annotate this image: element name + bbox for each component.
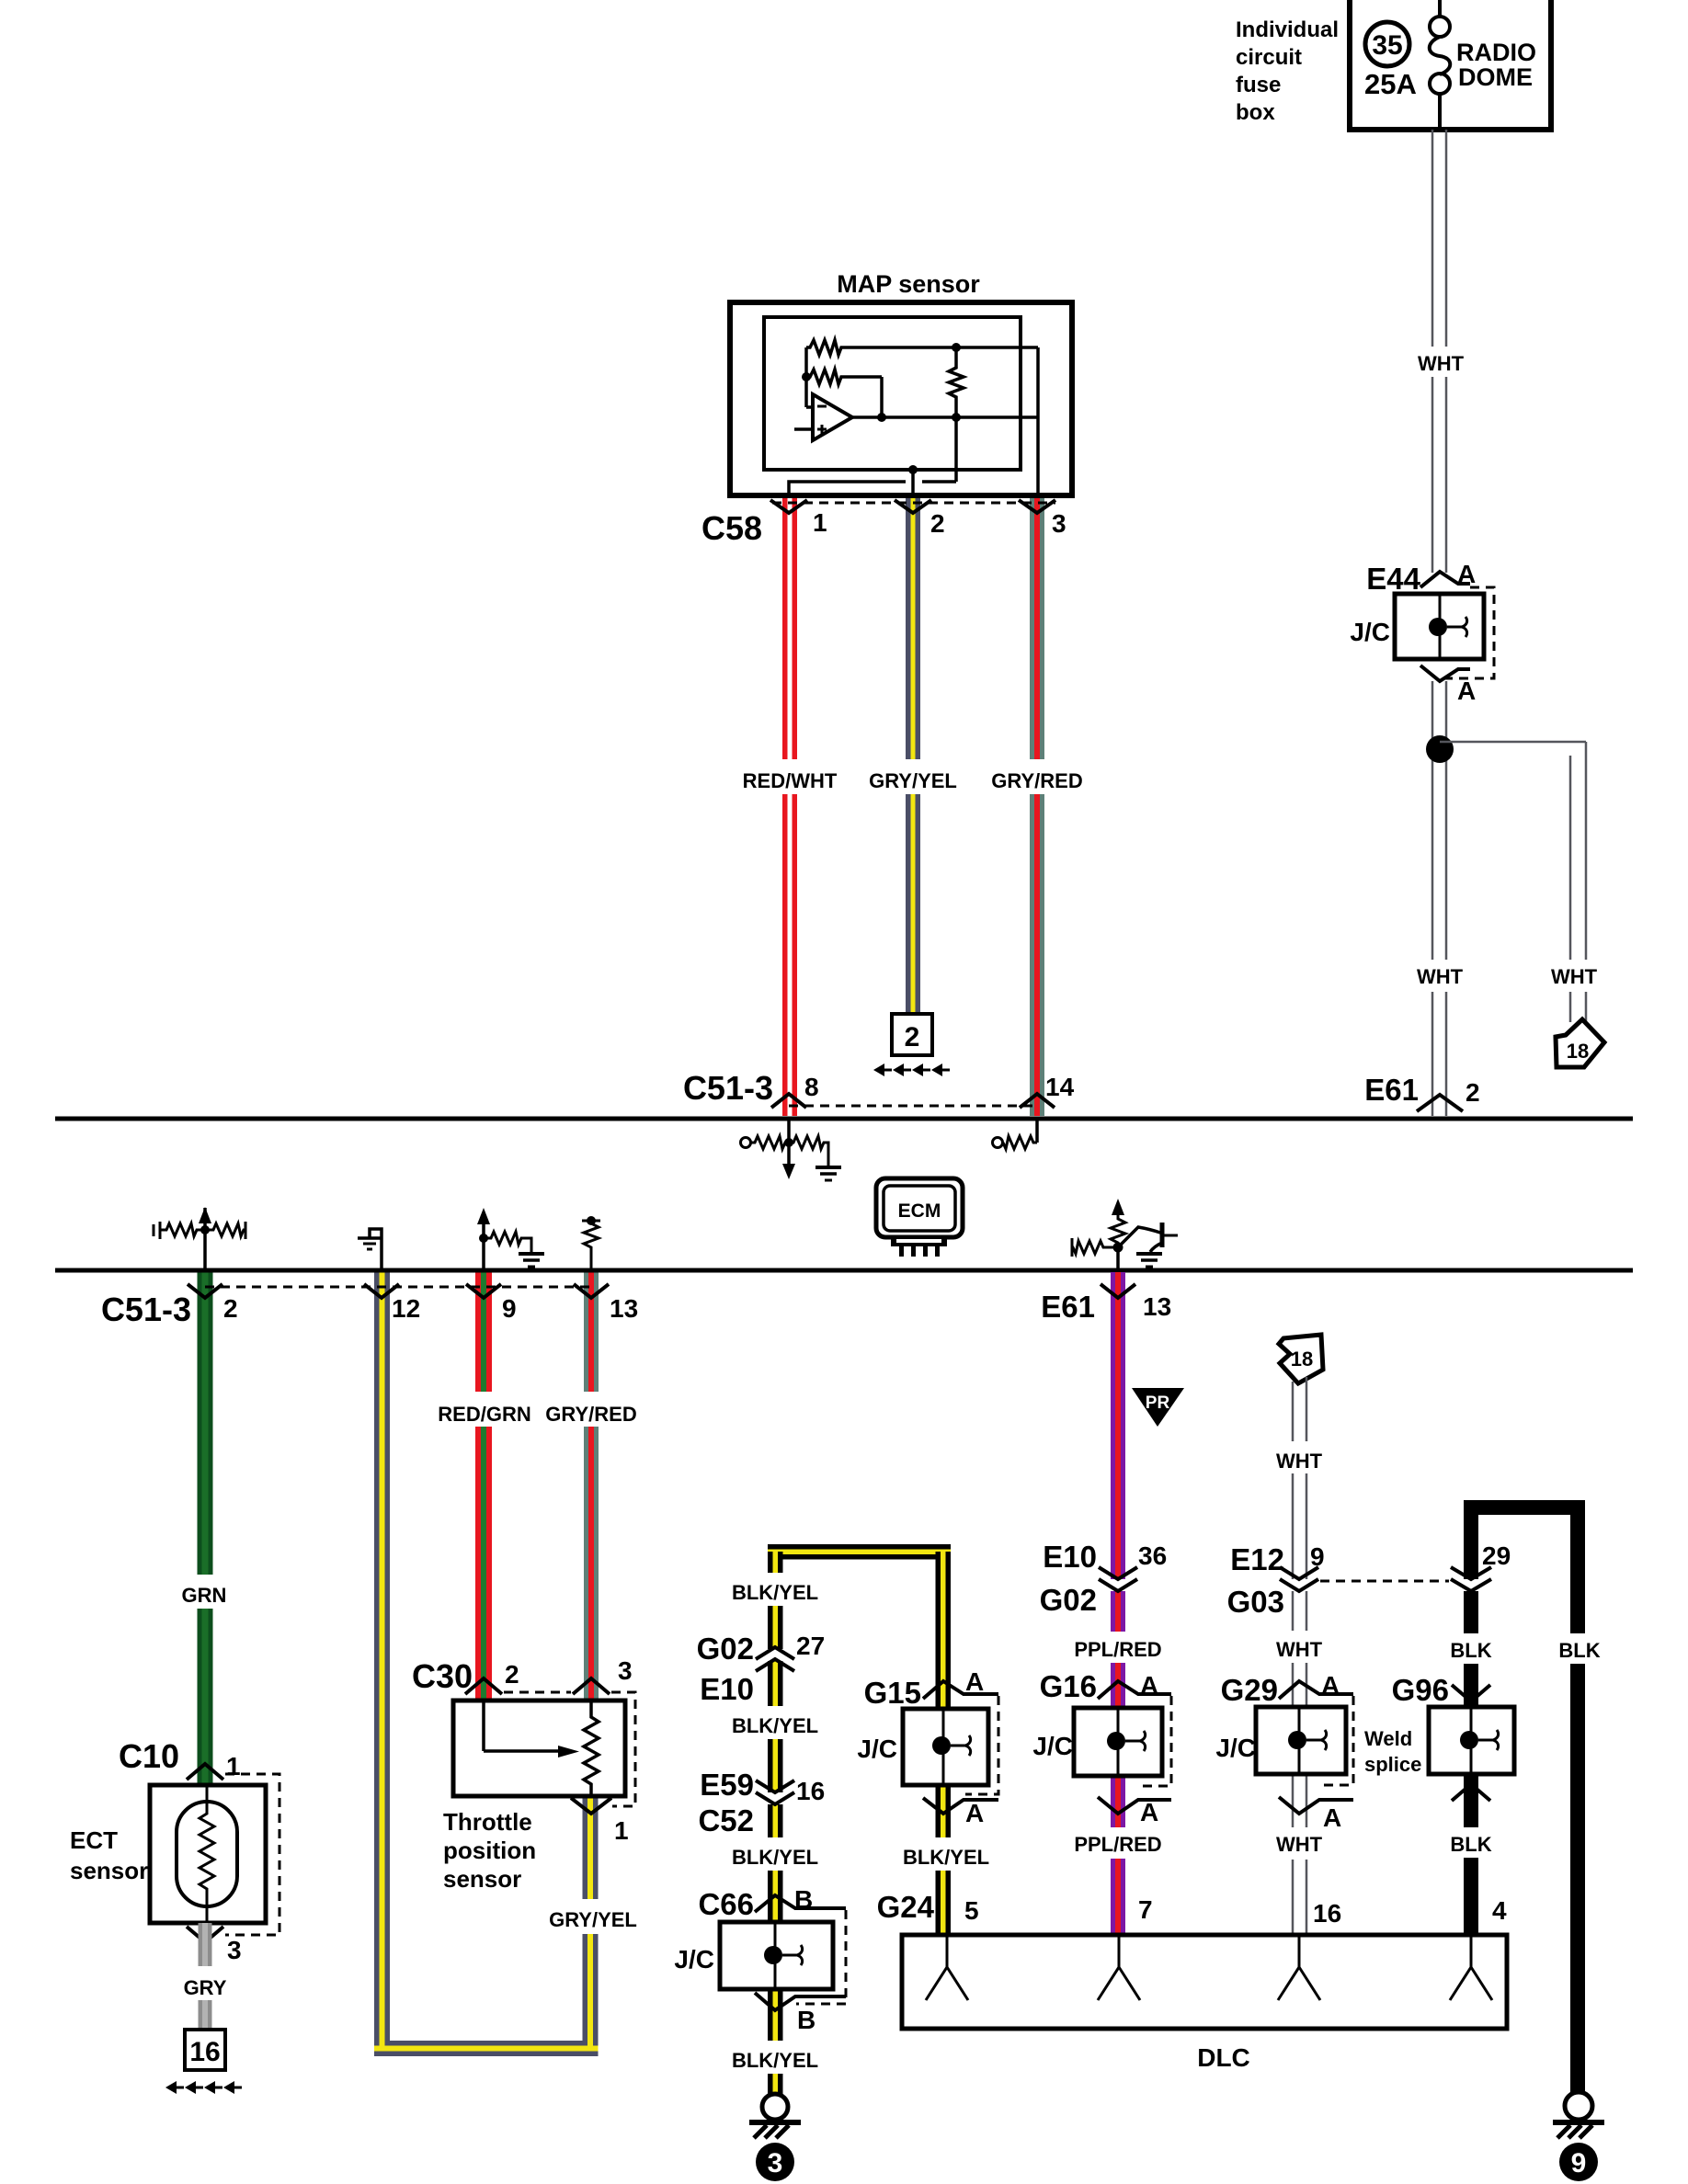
svg-text:WHT: WHT	[1551, 965, 1598, 988]
svg-text:3: 3	[227, 1936, 242, 1964]
svg-text:9: 9	[1310, 1542, 1325, 1571]
connector C30 pin 1	[571, 1798, 611, 1814]
wire RED/WHT C58-1	[782, 494, 797, 1116]
svg-text:box: box	[1236, 100, 1275, 125]
svg-text:2: 2	[223, 1294, 238, 1323]
svg-text:36: 36	[1138, 1541, 1167, 1570]
connector E10 pin 36 / G02	[1099, 1579, 1137, 1591]
svg-text:J/C: J/C	[674, 1945, 714, 1974]
svg-text:B: B	[797, 2006, 815, 2034]
DLC fork pin 7	[1098, 1935, 1119, 2000]
wire GRY/RED C51-3 pin 13	[584, 1272, 599, 1701]
ECM internal at pin 8	[787, 1120, 791, 1166]
svg-text:GRY: GRY	[184, 1976, 227, 1999]
PR triangle marker	[1132, 1388, 1184, 1427]
svg-text:E10: E10	[700, 1672, 754, 1706]
DLC box	[902, 1935, 1507, 2029]
svg-text:A: A	[1321, 1671, 1340, 1700]
connector E59 C52 pin 16	[756, 1792, 794, 1804]
svg-text:A: A	[1323, 1803, 1341, 1832]
ECT sensor dashed outline	[225, 1774, 279, 1935]
wire BLK right to ground 9	[1570, 1507, 1585, 2093]
junction node	[1426, 735, 1454, 763]
svg-text:E12: E12	[1230, 1542, 1284, 1576]
resistor R3 (vertical)	[952, 343, 961, 352]
svg-text:A: A	[1140, 1798, 1158, 1826]
fuse 35 25A RADIO DOME	[1438, 0, 1442, 17]
svg-text:4: 4	[1492, 1896, 1507, 1925]
dashed link G03 to 29	[1320, 1580, 1449, 1583]
svg-text:ECM: ECM	[898, 1200, 941, 1222]
svg-text:35: 35	[1372, 30, 1402, 61]
svg-text:A: A	[1140, 1671, 1158, 1700]
svg-text:DOME: DOME	[1458, 63, 1533, 91]
svg-text:GRY/RED: GRY/RED	[991, 769, 1082, 792]
op-amp U1	[806, 405, 813, 409]
wire right branch to pin 3	[1036, 347, 1040, 494]
svg-text:GRN: GRN	[182, 1584, 227, 1607]
connector G02 E10 pin 27	[756, 1649, 794, 1661]
svg-text:9: 9	[502, 1294, 517, 1323]
svg-text:2: 2	[930, 509, 945, 538]
wire WHT E44 to E61	[1431, 681, 1434, 1116]
svg-text:1: 1	[614, 1816, 629, 1845]
wire BLK loop top	[1464, 1500, 1585, 1515]
wire pin1 jumper	[789, 482, 906, 494]
svg-text:J/C: J/C	[1032, 1732, 1073, 1760]
svg-text:G29: G29	[1221, 1673, 1278, 1707]
svg-text:PPL/RED: PPL/RED	[1074, 1638, 1161, 1661]
svg-text:sensor: sensor	[443, 1865, 521, 1893]
MAP sensor outer box	[730, 302, 1072, 495]
wire GRY/YEL C58-2	[906, 494, 920, 1015]
svg-text:GRY/YEL: GRY/YEL	[869, 769, 957, 792]
svg-text:13: 13	[1143, 1292, 1171, 1321]
svg-text:DLC: DLC	[1197, 2043, 1250, 2072]
svg-text:C52: C52	[698, 1803, 754, 1837]
svg-text:splice: splice	[1364, 1753, 1421, 1776]
wire BLK/YEL loop top	[768, 1544, 951, 1560]
svg-text:BLK/YEL: BLK/YEL	[732, 1714, 818, 1737]
svg-text:RADIO: RADIO	[1456, 39, 1536, 66]
svg-text:BLK/YEL: BLK/YEL	[732, 1846, 818, 1869]
svg-text:C66: C66	[698, 1887, 754, 1921]
svg-text:25A: 25A	[1364, 68, 1417, 100]
svg-text:PR: PR	[1146, 1393, 1170, 1413]
svg-text:RED/WHT: RED/WHT	[743, 769, 838, 792]
svg-text:18: 18	[1291, 1348, 1313, 1371]
svg-text:G15: G15	[864, 1676, 921, 1710]
svg-text:ECT: ECT	[70, 1826, 118, 1854]
MAP sensor inner box	[764, 317, 1021, 470]
svg-text:1: 1	[226, 1752, 241, 1780]
svg-text:BLK/YEL: BLK/YEL	[732, 1581, 818, 1604]
svg-text:position: position	[443, 1837, 536, 1864]
svg-text:PPL/RED: PPL/RED	[1074, 1833, 1161, 1856]
wire BLK/YEL left chain	[768, 1552, 783, 1922]
wire PPL/RED E61-13 to DLC	[1111, 1272, 1125, 1935]
svg-text:27: 27	[796, 1632, 825, 1660]
connector E12 pin 9 / G03	[1280, 1579, 1318, 1591]
ECM internal at pin 2	[203, 1208, 207, 1270]
svg-text:29: 29	[1482, 1541, 1511, 1570]
ECM internal at pin 14	[1035, 1120, 1039, 1143]
ECM upper boundary line	[55, 1117, 1633, 1121]
svg-text:MAP sensor: MAP sensor	[837, 270, 980, 298]
thermistor	[200, 1803, 214, 1923]
ECM lower boundary line	[55, 1268, 1633, 1273]
wire GRY/YEL bottom loop	[374, 2041, 599, 2056]
arrows under box 16	[165, 2081, 242, 2094]
svg-text:3: 3	[768, 2148, 783, 2178]
svg-text:C30: C30	[412, 1657, 473, 1695]
ECM internal at pin 12	[370, 1229, 382, 1270]
fuse box	[1350, 0, 1551, 130]
wire BLK left 29 to G96	[1464, 1507, 1478, 1707]
svg-text:2: 2	[1466, 1078, 1480, 1107]
svg-text:J/C: J/C	[857, 1735, 897, 1763]
svg-text:sensor: sensor	[70, 1857, 148, 1884]
svg-text:C10: C10	[119, 1737, 179, 1775]
svg-text:C51-3: C51-3	[101, 1291, 191, 1328]
ECM internal at pin 9	[482, 1224, 485, 1270]
connector pin 29	[1451, 1579, 1491, 1591]
svg-text:BLK: BLK	[1450, 1639, 1491, 1662]
resistor R1 (top feedback)	[806, 340, 1038, 355]
svg-text:7: 7	[1138, 1895, 1153, 1924]
terminal box 2	[892, 1014, 932, 1055]
svg-text:A: A	[1457, 677, 1476, 705]
arrows under box 2	[873, 1064, 950, 1076]
svg-text:Throttle: Throttle	[443, 1808, 532, 1836]
node on inner box bottom to pin 2	[908, 465, 918, 474]
svg-text:9: 9	[1571, 2148, 1587, 2178]
svg-text:G03: G03	[1227, 1585, 1284, 1619]
wire BLK/YEL right to G15	[936, 1552, 952, 1935]
svg-text:BLK/YEL: BLK/YEL	[903, 1846, 989, 1869]
svg-text:18: 18	[1567, 1040, 1589, 1063]
svg-text:A: A	[1457, 560, 1476, 588]
svg-text:Weld: Weld	[1364, 1727, 1412, 1750]
svg-text:C58: C58	[701, 509, 762, 547]
svg-text:B: B	[794, 1885, 813, 1914]
ECT sensor box	[150, 1785, 266, 1923]
connector 18 (right)	[1556, 1019, 1604, 1067]
wire GRY/RED C58-3	[1030, 494, 1044, 1116]
connector E61-13 arrow overlay	[1101, 1284, 1135, 1298]
svg-text:5: 5	[964, 1896, 979, 1925]
wire op-amp output	[852, 415, 1038, 419]
ground 3	[762, 2094, 788, 2120]
svg-text:E44: E44	[1366, 562, 1420, 596]
connector C10 pin 3	[187, 1927, 223, 1942]
DLC fork pin 16	[1278, 1935, 1299, 2000]
resistor R2 (input)	[806, 370, 882, 384]
svg-text:12: 12	[392, 1294, 420, 1323]
ECM internal at pin 13	[584, 1221, 599, 1270]
wire GRY/YEL loop C51-3 pin 12	[374, 1272, 390, 2056]
wire GRN C51-3 pin 2	[198, 1272, 213, 1785]
wire BLK/YEL C66 to ground	[768, 1989, 783, 2094]
connector C51-3 lower row	[205, 1286, 591, 1289]
svg-text:2: 2	[905, 1022, 920, 1052]
svg-text:WHT: WHT	[1276, 1833, 1323, 1856]
svg-text:16: 16	[796, 1777, 825, 1805]
svg-text:BLK: BLK	[1558, 1639, 1600, 1662]
svg-text:WHT: WHT	[1276, 1450, 1323, 1473]
svg-text:8: 8	[804, 1073, 819, 1101]
wire WHT branch to connector 18	[1440, 741, 1586, 744]
connector C51-3 pins 8 14	[789, 1105, 1037, 1108]
svg-text:E61: E61	[1364, 1073, 1419, 1107]
wire RED/GRN C51-3 pin 9	[475, 1272, 492, 1701]
throttle position sensor box	[453, 1701, 625, 1796]
wire WHT 18 to G29 to DLC	[1292, 1382, 1295, 1935]
DLC fork pin 4	[1450, 1935, 1471, 2000]
svg-text:fuse: fuse	[1236, 73, 1281, 97]
wire GRY/YEL TPS pin1	[583, 1796, 599, 2056]
svg-text:circuit: circuit	[1236, 45, 1302, 70]
svg-text:G24: G24	[877, 1890, 935, 1924]
svg-text:GRY/RED: GRY/RED	[545, 1403, 636, 1426]
svg-text:A: A	[965, 1799, 984, 1827]
svg-text:GRY/YEL: GRY/YEL	[549, 1908, 637, 1931]
svg-text:G16: G16	[1040, 1669, 1097, 1703]
svg-text:RED/GRN: RED/GRN	[438, 1403, 530, 1426]
svg-text:3: 3	[1052, 509, 1066, 538]
svg-text:G02: G02	[697, 1632, 754, 1666]
svg-text:BLK: BLK	[1450, 1833, 1491, 1856]
svg-text:14: 14	[1045, 1073, 1075, 1101]
svg-text:13: 13	[610, 1294, 638, 1323]
svg-text:16: 16	[189, 2037, 220, 2067]
svg-text:A: A	[965, 1667, 984, 1696]
ECM internal transistor at E61 pin 13	[1116, 1247, 1120, 1270]
svg-text:C51-3: C51-3	[683, 1069, 773, 1107]
potentiometer resistor	[584, 1701, 599, 1796]
svg-text:E10: E10	[1043, 1540, 1097, 1574]
svg-text:1: 1	[813, 508, 827, 537]
connector C58 row	[772, 502, 1055, 505]
svg-text:3: 3	[618, 1656, 633, 1685]
svg-text:WHT: WHT	[1417, 965, 1464, 988]
wire BLK G96 to DLC	[1464, 1774, 1478, 1935]
connector 18 (lower)	[1279, 1335, 1323, 1383]
svg-text:WHT: WHT	[1418, 352, 1465, 375]
svg-text:E59: E59	[700, 1768, 754, 1802]
svg-text:16: 16	[1313, 1899, 1341, 1928]
svg-text:E61: E61	[1041, 1290, 1095, 1324]
svg-text:WHT: WHT	[1276, 1638, 1323, 1661]
ECM box icon	[876, 1178, 963, 1237]
terminal box 16	[185, 2030, 225, 2070]
svg-text:Individual: Individual	[1236, 17, 1339, 42]
ground 9	[1565, 2092, 1592, 2120]
wire R2 to output node	[880, 377, 884, 417]
svg-text:G96: G96	[1392, 1673, 1449, 1707]
wire R3 node down to pin1 bus	[954, 417, 958, 482]
wire GRY	[199, 1923, 212, 2030]
svg-text:J/C: J/C	[1215, 1734, 1256, 1762]
svg-text:BLK/YEL: BLK/YEL	[732, 2049, 818, 2072]
svg-text:G02: G02	[1040, 1583, 1097, 1617]
wire node left vertical	[804, 347, 808, 407]
wire WHT fuse to E44	[1431, 130, 1434, 573]
svg-text:J/C: J/C	[1350, 618, 1390, 646]
DLC fork pin 5	[926, 1935, 947, 2000]
svg-text:2: 2	[505, 1660, 519, 1689]
